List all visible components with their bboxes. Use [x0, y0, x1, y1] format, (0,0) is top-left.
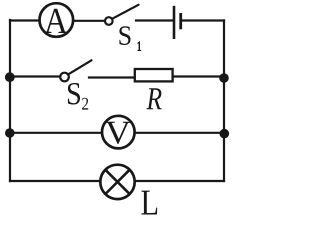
wire row2 resistor to right [173, 75, 224, 77]
ammeter A1 [40, 3, 74, 37]
node junction right row2 [219, 73, 229, 83]
label R [146, 88, 161, 109]
battery cell long plate [173, 6, 176, 39]
voltmeter V1 [102, 116, 135, 149]
wire bottom lamp to right [135, 180, 224, 182]
switch S1 [105, 17, 113, 25]
node junction left row3 [5, 128, 15, 138]
wire top between ammeter and S1 [74, 20, 106, 22]
wire bottom left of lamp [10, 180, 101, 182]
label S2 subscript 2 [82, 98, 88, 110]
wire top segment left [10, 19, 41, 21]
label S1 subscript 1 [138, 42, 141, 51]
ammeter letter A [44, 9, 67, 33]
wire right vertical [223, 21, 225, 182]
wire left vertical [9, 20, 11, 181]
node junction left row2 [5, 72, 15, 82]
resistor R [135, 69, 173, 81]
wire row2 S2 to resistor [89, 76, 134, 78]
battery cell short plate [179, 13, 182, 29]
wire row3 voltmeter to right [135, 132, 225, 134]
wire battery to top-right corner [182, 19, 224, 21]
label L [141, 191, 157, 215]
label S2 [68, 83, 80, 105]
wire row2 left of S2 [10, 75, 60, 77]
node junction right row3 [220, 129, 230, 139]
wire top between S1 and battery [136, 19, 173, 21]
switch S2 [60, 73, 69, 82]
label S1 [119, 26, 130, 45]
voltmeter letter V [105, 122, 130, 144]
wire row3 left of voltmeter [10, 132, 103, 134]
lamp L [100, 165, 134, 199]
